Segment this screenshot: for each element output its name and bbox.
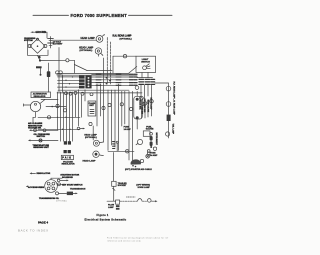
light switch rotary bbox=[143, 66, 147, 70]
connector block dark column 1 bbox=[79, 76, 85, 89]
junction dots on tick wires bbox=[106, 77, 108, 79]
svg-text:HORN LAMP: HORN LAMP bbox=[138, 186, 151, 189]
wire bars to right riser bbox=[155, 83, 169, 138]
wire row 2 bbox=[38, 128, 80, 130]
title rule right bbox=[129, 14, 173, 16]
connector column right bbox=[130, 74, 138, 85]
alternator A1 diamond bbox=[30, 39, 45, 54]
center bus verticals bbox=[57, 92, 59, 130]
wire drop bbox=[112, 56, 114, 73]
connector bbox=[166, 102, 171, 107]
svg-text:L.H. REAR LAMP: L.H. REAR LAMP bbox=[172, 99, 175, 116]
lead diagonal up right bbox=[40, 100, 45, 104]
wire row y150 bbox=[108, 150, 134, 152]
drop continues bbox=[113, 186, 115, 201]
svg-text:HEAD LAMP: HEAD LAMP bbox=[81, 37, 96, 40]
connector bbox=[143, 102, 147, 106]
trailer socket drop bbox=[113, 153, 115, 182]
connector bbox=[166, 86, 171, 91]
svg-text:FORD 7000 SUPPLEMENT: FORD 7000 SUPPLEMENT bbox=[71, 13, 128, 18]
svg-text:ACCESSORIES: ACCESSORIES bbox=[28, 186, 44, 189]
svg-text:SENDING UNIT: SENDING UNIT bbox=[33, 147, 49, 149]
drop to lamp bbox=[92, 126, 94, 140]
fuel gauge box bbox=[143, 131, 150, 136]
PAIG terminal box bbox=[61, 155, 73, 159]
trailer socket fuse box bbox=[112, 181, 116, 186]
battery B1 bbox=[50, 37, 52, 49]
head lamp L3 bbox=[93, 140, 99, 146]
svg-text:HEAD LAMP: HEAD LAMP bbox=[83, 160, 97, 163]
connector on feed bbox=[66, 59, 69, 62]
alternator top terminal bbox=[36, 38, 38, 40]
key switch vertical bbox=[121, 91, 123, 126]
svg-text:PAIG: PAIG bbox=[62, 157, 72, 160]
connector chain bbox=[150, 132, 153, 135]
bus verticals below light switch bbox=[140, 85, 142, 96]
lead left with terminal bbox=[24, 104, 31, 106]
fuel gauge verticals bbox=[128, 91, 130, 160]
head lamp L2 optional bbox=[95, 48, 101, 54]
fuse pair bbox=[147, 150, 150, 153]
svg-text:SOLENOID: SOLENOID bbox=[62, 177, 73, 179]
svg-text:Ford 7000 tractor wiring diagr: Ford 7000 tractor wiring diagram shown a… bbox=[107, 237, 169, 240]
connector bbox=[150, 100, 154, 104]
thick bus bar bbox=[36, 66, 42, 68]
svg-text:R.H. REAR LAMP: R.H. REAR LAMP bbox=[113, 35, 132, 38]
wire battery to head lamp bbox=[52, 39, 96, 41]
head lamp L4 bbox=[93, 151, 99, 157]
alternator corner terminal left bbox=[28, 44, 31, 47]
main bus lower bbox=[57, 74, 137, 76]
connector bbox=[140, 96, 144, 100]
svg-text:SWITCH: SWITCH bbox=[141, 61, 150, 63]
svg-text:TRANSMISSION: TRANSMISSION bbox=[70, 188, 86, 191]
svg-text:KEY START SWITCH: KEY START SWITCH bbox=[62, 183, 83, 186]
wire bbox=[44, 32, 47, 38]
resistor mark 2 bbox=[148, 199, 152, 203]
head lamp L1 bbox=[96, 36, 103, 43]
svg-text:REGULATOR: REGULATOR bbox=[34, 95, 46, 98]
instrument cluster connector bbox=[45, 180, 58, 193]
svg-text:REGULATOR: REGULATOR bbox=[62, 163, 75, 166]
lead down bend bbox=[33, 112, 36, 122]
rear lamp box bbox=[116, 200, 120, 204]
title rule left bbox=[33, 14, 69, 16]
connector bars at light switch bbox=[139, 79, 155, 84]
svg-text:14 AMP: 14 AMP bbox=[124, 128, 132, 131]
svg-text:(OPTIONAL): (OPTIONAL) bbox=[120, 38, 132, 41]
alternator enclosure bbox=[28, 38, 49, 56]
alternator corner terminal right bbox=[44, 44, 47, 47]
dashed wire with resistors bbox=[120, 200, 137, 202]
junction at alternator output bbox=[39, 59, 41, 61]
light switch leads bbox=[141, 73, 143, 78]
dotted link bbox=[127, 196, 136, 198]
svg-text:14 AMP: 14 AMP bbox=[150, 154, 158, 157]
circled number bbox=[47, 116, 50, 119]
oil pressure switch row bbox=[30, 129, 58, 131]
svg-text:INSTR. LAMP: INSTR. LAMP bbox=[150, 98, 153, 111]
harness rows to right bbox=[92, 73, 130, 75]
svg-text:(OPT) STARTER AID CABLE: (OPT) STARTER AID CABLE bbox=[125, 168, 152, 171]
svg-text:(OPTIONAL): (OPTIONAL) bbox=[80, 49, 93, 52]
svg-text:KEY SW: KEY SW bbox=[140, 107, 142, 115]
tick wire 2 bbox=[110, 42, 112, 84]
headlamp arrow top bbox=[77, 127, 80, 130]
svg-text:(OPTIONAL): (OPTIONAL) bbox=[85, 136, 97, 139]
alternator center dot bbox=[37, 45, 39, 47]
wire to light switch bbox=[113, 55, 136, 57]
bus diagonal to switch bbox=[129, 67, 137, 74]
connector bbox=[166, 132, 170, 136]
light switch box bbox=[136, 56, 156, 72]
svg-text:REGULATOR: REGULATOR bbox=[37, 172, 51, 175]
safety start chain bbox=[56, 192, 59, 195]
drop from bar bbox=[40, 68, 42, 75]
temperature sending row bbox=[29, 139, 58, 141]
svg-text:reference and service use only: reference and service use only bbox=[107, 239, 141, 242]
svg-text:SOCKET: SOCKET bbox=[118, 185, 127, 187]
relay block dark bbox=[47, 71, 51, 77]
svg-text:SWITCH: SWITCH bbox=[37, 136, 46, 138]
tick wire 1 bbox=[106, 38, 108, 85]
connector on wire bbox=[123, 55, 126, 58]
feed rows into connector bbox=[58, 76, 80, 78]
proofmeter circle bbox=[30, 101, 40, 111]
connector block dark bbox=[167, 115, 171, 121]
svg-text:SYSTEM: SYSTEM bbox=[24, 40, 33, 42]
circled numbers bbox=[65, 92, 68, 95]
gauge circle bbox=[137, 139, 142, 144]
flasher box bbox=[88, 101, 96, 116]
horn starter aid blob bbox=[131, 159, 141, 164]
connector block dark column 2 bbox=[85, 76, 91, 89]
circled numbers on bus bbox=[56, 104, 59, 107]
svg-text:GAUGE: GAUGE bbox=[146, 128, 154, 131]
wire row 1 bbox=[38, 116, 80, 118]
svg-text:TEMP GAUGE: TEMP GAUGE bbox=[147, 100, 150, 113]
alternator regulator box bbox=[31, 92, 51, 98]
resistor mark 1 bbox=[138, 199, 143, 202]
svg-text:LAMP: LAMP bbox=[108, 206, 114, 209]
svg-text:Electrical System Schematic: Electrical System Schematic bbox=[85, 219, 127, 222]
svg-text:BATTERY: BATTERY bbox=[53, 43, 63, 46]
main bus upper bbox=[57, 72, 129, 74]
VR connector dark bars row1 bbox=[64, 141, 67, 144]
arrow wire bbox=[57, 179, 60, 182]
ground arrow bbox=[31, 31, 35, 33]
contact pair bbox=[56, 71, 59, 74]
svg-text:R.H. REAR LAMP: R.H. REAR LAMP bbox=[172, 82, 175, 99]
svg-text:TAIL LAMP: TAIL LAMP bbox=[172, 124, 175, 135]
svg-text:GROUND: GROUND bbox=[36, 31, 47, 34]
circled number on riser bbox=[63, 109, 66, 112]
svg-text:Figure 1: Figure 1 bbox=[97, 214, 109, 217]
sagging feed wire bbox=[40, 59, 66, 61]
VR dark bars row2 bbox=[64, 150, 67, 153]
long vertical from battery bbox=[58, 48, 60, 93]
key start switch body bbox=[134, 96, 143, 119]
bus lines below connectors bbox=[58, 89, 129, 91]
wire above gauge bbox=[51, 177, 62, 179]
svg-text:BACK TO INDEX: BACK TO INDEX bbox=[18, 229, 49, 233]
svg-text:INSTRUMENT: INSTRUMENT bbox=[155, 133, 157, 146]
svg-text:PAGE 4: PAGE 4 bbox=[38, 221, 48, 225]
svg-text:(OPTIONAL): (OPTIONAL) bbox=[56, 199, 67, 202]
key start switch label bbox=[58, 183, 61, 186]
